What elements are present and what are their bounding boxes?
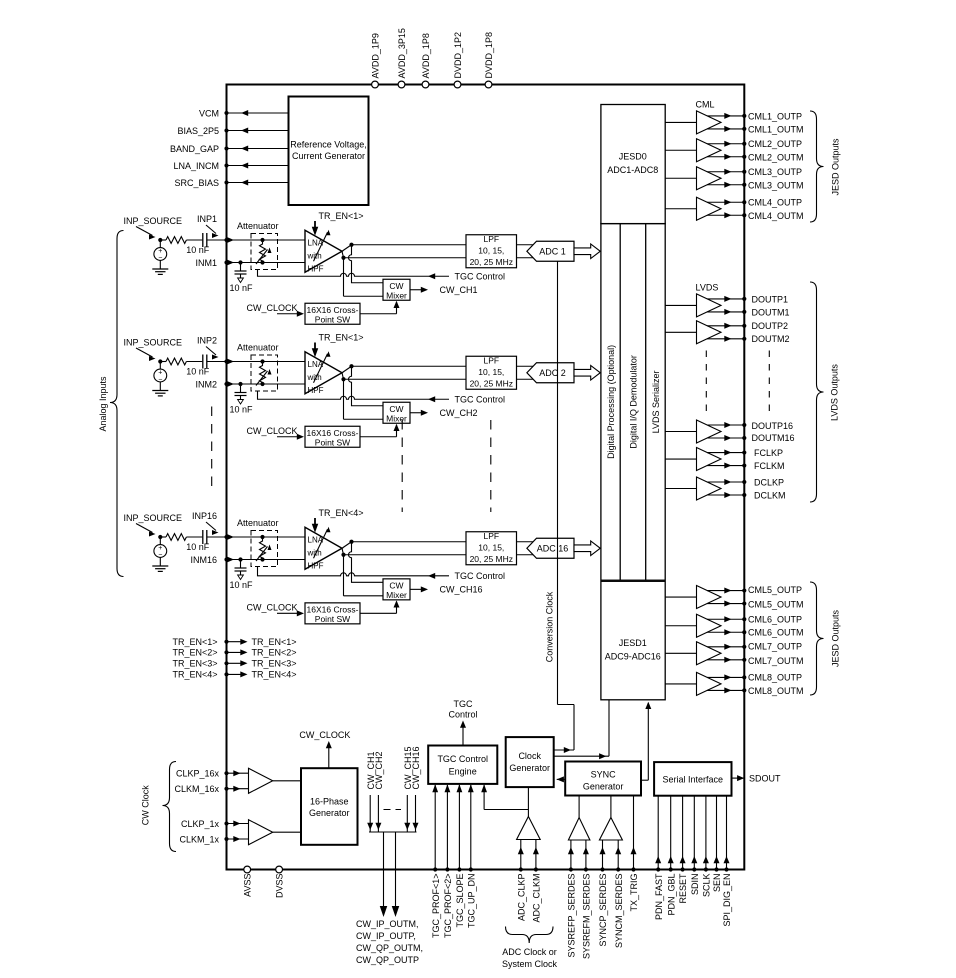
svg-text:16X16 Cross-: 16X16 Cross- bbox=[307, 605, 359, 615]
svg-text:AVDD_1P8: AVDD_1P8 bbox=[421, 33, 431, 78]
channel 2: CW mixer block bbox=[383, 402, 410, 423]
channel 1: LNA amplifier U1 bbox=[305, 230, 342, 272]
svg-text:SEN: SEN bbox=[712, 874, 722, 893]
channel 2: source resistor RS2 bbox=[160, 361, 166, 363]
svg-text:16-Phase: 16-Phase bbox=[310, 797, 349, 807]
svg-text:Digital Processing (Optional): Digital Processing (Optional) bbox=[606, 345, 616, 459]
channel 16: attenuator dashed box bbox=[251, 531, 278, 567]
svg-text:VCM: VCM bbox=[199, 108, 219, 118]
svg-text:ADC 16: ADC 16 bbox=[537, 543, 569, 553]
svg-text:CML8_OUTP: CML8_OUTP bbox=[748, 672, 802, 682]
serial interface input wire bbox=[657, 796, 659, 870]
channel 16: INM wire into chip bbox=[227, 559, 306, 561]
channel 16: CW mixer block bbox=[383, 579, 410, 600]
svg-text:10, 15,: 10, 15, bbox=[478, 367, 504, 377]
svg-text:HPF: HPF bbox=[308, 561, 324, 570]
JESD outputs brace (top) bbox=[810, 111, 824, 222]
channel 16: source node bbox=[158, 535, 162, 539]
channel 16: CW_CH16 output wire bbox=[410, 588, 425, 590]
svg-text:AVDD_1P9: AVDD_1P9 bbox=[371, 33, 381, 78]
LVDS output buffer (pair 2) bbox=[665, 331, 697, 333]
svg-text:CML4_OUTP: CML4_OUTP bbox=[748, 197, 802, 207]
svg-text:RESET: RESET bbox=[678, 873, 688, 904]
channel 2: attenuator dashed box bbox=[251, 355, 278, 391]
svg-text:INP2: INP2 bbox=[197, 336, 217, 346]
channel 16: cross-point to mixer wire bbox=[360, 612, 397, 614]
power pin AVDD_3P15 bbox=[398, 81, 405, 88]
svg-text:Digital I/Q Demodulator: Digital I/Q Demodulator bbox=[628, 355, 638, 449]
channel 16: series capacitor 10 nF bbox=[202, 530, 204, 544]
svg-text:TR_EN<2>: TR_EN<2> bbox=[252, 648, 297, 658]
svg-text:10 nF: 10 nF bbox=[230, 405, 254, 415]
JESD1 ADC9-ADC16 block bbox=[601, 581, 665, 700]
channel 1: tap wire to CW mixer (lower) bbox=[343, 258, 345, 297]
svg-text:TR_EN<1>: TR_EN<1> bbox=[319, 211, 364, 221]
LVDS output buffer (pair 2) bbox=[665, 488, 697, 490]
channel 1: attenuator dashed box bbox=[251, 234, 278, 270]
svg-text:Generator: Generator bbox=[509, 763, 550, 773]
svg-text:SYNC: SYNC bbox=[591, 770, 617, 780]
svg-text:Conversion Clock: Conversion Clock bbox=[545, 591, 555, 662]
svg-text:10 nF: 10 nF bbox=[230, 283, 254, 293]
channel 1: LPF to ADC wires bbox=[517, 244, 537, 246]
pin SRC_BIAS bbox=[227, 182, 289, 184]
clock to TGC engine wire bbox=[483, 785, 485, 810]
svg-text:DOUTP1: DOUTP1 bbox=[752, 294, 789, 304]
LVDS output buffer (pair 1) bbox=[665, 304, 697, 306]
svg-text:CML1_OUTM: CML1_OUTM bbox=[748, 124, 804, 134]
clock generator to conversion clock wire bbox=[554, 749, 574, 751]
CW channel collector wire bbox=[369, 831, 417, 833]
conversion clock wire bbox=[557, 261, 559, 704]
svg-text:TGC: TGC bbox=[454, 699, 473, 709]
clock generator block bbox=[506, 737, 554, 787]
svg-text:JESD1: JESD1 bbox=[619, 638, 647, 648]
svg-text:SYSREFP_SERDES: SYSREFP_SERDES bbox=[567, 874, 577, 958]
svg-text:TGC_SLOPE: TGC_SLOPE bbox=[455, 874, 465, 928]
svg-text:Generator: Generator bbox=[583, 782, 624, 792]
channel 16: LPF filter block bbox=[466, 532, 517, 565]
svg-text:Clock: Clock bbox=[518, 751, 541, 761]
channel 16: LNA amplifier U16 bbox=[305, 527, 342, 569]
channel 2: tap wire to CW mixer (upper) bbox=[349, 366, 384, 406]
channel 16: source ground bbox=[159, 557, 161, 566]
svg-text:Point SW: Point SW bbox=[315, 437, 350, 447]
channel 16: LNA gain arrow bbox=[314, 529, 328, 558]
SYNC to JESD1 wire bbox=[641, 779, 648, 781]
svg-text:ADC_CLKM: ADC_CLKM bbox=[532, 874, 542, 923]
channel 16: LPF to ADC wires bbox=[517, 541, 537, 543]
svg-text:CML4_OUTM: CML4_OUTM bbox=[748, 211, 804, 221]
svg-text:INP_SOURCE: INP_SOURCE bbox=[124, 513, 183, 523]
channel continuation dashed line (right) bbox=[490, 420, 492, 512]
svg-text:16X16 Cross-: 16X16 Cross- bbox=[307, 305, 359, 315]
svg-text:SYSREFM_SERDES: SYSREFM_SERDES bbox=[582, 874, 592, 960]
CW channel continuation dashes bbox=[384, 809, 402, 811]
svg-text:CW_CH16: CW_CH16 bbox=[440, 585, 483, 595]
channel 2: INM wire into chip bbox=[227, 383, 306, 385]
pin VCM bbox=[227, 112, 289, 114]
channel 1: tap wire to CW mixer (upper) bbox=[349, 245, 384, 283]
channel 2: shunt capacitor 10 nF bbox=[238, 382, 242, 386]
CW clock buffer (1x) bbox=[249, 820, 273, 845]
svg-text:CW_CLOCK: CW_CLOCK bbox=[247, 603, 298, 613]
svg-text:TX_TRIG: TX_TRIG bbox=[629, 874, 639, 912]
channel 16: signal source VS16 bbox=[159, 537, 161, 545]
LVDS continuation dashed line (left) bbox=[705, 351, 707, 415]
channel 1: digital bus arrow to processing bbox=[574, 244, 600, 259]
svg-text:TR_EN<2>: TR_EN<2> bbox=[172, 648, 217, 658]
channel 2: 16X16 cross-point switch block bbox=[305, 426, 360, 447]
svg-text:CML2_OUTP: CML2_OUTP bbox=[748, 139, 802, 149]
channel 1: shunt capacitor 10 nF bbox=[238, 260, 242, 264]
serial interface input wire bbox=[693, 796, 695, 870]
svg-text:FCLKM: FCLKM bbox=[754, 461, 785, 471]
svg-text:CLKP_1x: CLKP_1x bbox=[181, 819, 220, 829]
pin LNA_INCM bbox=[227, 165, 289, 167]
svg-text:CW_CLOCK: CW_CLOCK bbox=[247, 303, 298, 313]
svg-text:ADC9-ADC16: ADC9-ADC16 bbox=[605, 651, 661, 661]
CW_CLOCK output wire bbox=[328, 744, 330, 768]
svg-text:ADC 2: ADC 2 bbox=[539, 368, 566, 378]
svg-text:CML6_OUTP: CML6_OUTP bbox=[748, 615, 802, 625]
ground pin DVSS bbox=[276, 866, 283, 873]
svg-text:LPF: LPF bbox=[484, 531, 500, 541]
channel 2: digital bus arrow to processing bbox=[574, 365, 600, 380]
16-phase generator block bbox=[301, 768, 358, 845]
channel 16: INP wire into chip bbox=[227, 536, 306, 538]
svg-text:CW_CH1: CW_CH1 bbox=[440, 285, 478, 295]
svg-text:Mixer: Mixer bbox=[386, 413, 407, 423]
digital processing (optional) block bbox=[601, 224, 665, 581]
channel 1: TR_EN arrow into LNA bbox=[314, 221, 316, 232]
svg-text:TR_EN<3>: TR_EN<3> bbox=[252, 659, 297, 669]
svg-text:CML: CML bbox=[696, 100, 715, 110]
JESD outputs brace (bottom) bbox=[810, 582, 824, 695]
svg-text:CML3_OUTM: CML3_OUTM bbox=[748, 180, 804, 190]
svg-text:Mixer: Mixer bbox=[386, 290, 407, 300]
svg-text:INM1: INM1 bbox=[195, 258, 217, 268]
svg-text:10 nF: 10 nF bbox=[186, 245, 210, 255]
svg-text:System Clock: System Clock bbox=[502, 959, 558, 969]
svg-text:CML3_OUTP: CML3_OUTP bbox=[748, 167, 802, 177]
serial interface input wire bbox=[705, 796, 707, 870]
digital I/Q demodulator block bbox=[645, 224, 647, 581]
svg-text:PDN_GBL: PDN_GBL bbox=[666, 874, 676, 916]
svg-text:CW Clock: CW Clock bbox=[141, 785, 151, 825]
svg-text:INP_SOURCE: INP_SOURCE bbox=[124, 338, 183, 348]
channel 16: LNA differential output wires bbox=[342, 542, 352, 549]
svg-text:LPF: LPF bbox=[484, 234, 500, 244]
channel 16: tap wire to CW mixer (lower) bbox=[343, 555, 345, 596]
svg-text:JESD Outputs: JESD Outputs bbox=[831, 138, 841, 196]
svg-text:Point SW: Point SW bbox=[315, 614, 350, 624]
svg-text:SYNCM_SERDES: SYNCM_SERDES bbox=[614, 874, 624, 949]
channel 1: CW mixer block bbox=[383, 279, 410, 300]
LVDS output buffer (pair 1) bbox=[665, 431, 697, 433]
svg-text:CLKP_16x: CLKP_16x bbox=[176, 769, 220, 779]
svg-text:TGC Control: TGC Control bbox=[455, 395, 506, 405]
channel 1: source resistor RS1 bbox=[160, 239, 166, 241]
channel 2: INP wire into chip bbox=[227, 361, 306, 363]
svg-text:DOUTP2: DOUTP2 bbox=[752, 321, 789, 331]
CML(JESD1) output buffer (pair 4) bbox=[665, 683, 697, 685]
svg-text:DVDD_1P8: DVDD_1P8 bbox=[484, 32, 494, 79]
svg-text:10, 15,: 10, 15, bbox=[478, 245, 504, 255]
svg-text:CML5_OUTP: CML5_OUTP bbox=[748, 585, 802, 595]
svg-text:SDIN: SDIN bbox=[690, 874, 700, 896]
svg-text:CW_CH2: CW_CH2 bbox=[374, 751, 384, 789]
LVDS outputs brace bbox=[810, 282, 824, 502]
svg-text:CW_QP_OUTP: CW_QP_OUTP bbox=[356, 955, 419, 965]
CW_IP/QP output wire (left) bbox=[383, 832, 385, 905]
svg-text:TR_EN<4>: TR_EN<4> bbox=[252, 670, 297, 680]
analog inputs brace bbox=[110, 231, 124, 577]
power pin DVDD_1P8 bbox=[485, 81, 492, 88]
TX_TRIG input wire bbox=[633, 796, 635, 870]
pin BIAS_2P5 bbox=[227, 130, 289, 132]
svg-text:CML6_OUTM: CML6_OUTM bbox=[748, 628, 804, 638]
TGC control engine block bbox=[428, 746, 497, 784]
svg-text:DOUTP16: DOUTP16 bbox=[752, 421, 794, 431]
svg-text:Attenuator: Attenuator bbox=[237, 221, 279, 231]
svg-text:Serial Interface: Serial Interface bbox=[663, 774, 724, 784]
channel 1: LNA differential output wires bbox=[342, 245, 352, 252]
svg-text:Engine: Engine bbox=[449, 766, 477, 776]
channel 2: LNA differential output wires bbox=[342, 366, 352, 373]
svg-text:CML7_OUTM: CML7_OUTM bbox=[748, 656, 804, 666]
svg-text:DVSS: DVSS bbox=[275, 874, 285, 899]
svg-text:DCLKM: DCLKM bbox=[754, 490, 786, 500]
svg-text:HPF: HPF bbox=[308, 264, 324, 273]
svg-text:TR_EN<3>: TR_EN<3> bbox=[172, 659, 217, 669]
svg-text:HPF: HPF bbox=[308, 386, 324, 395]
svg-text:CW_IP_OUTM,: CW_IP_OUTM, bbox=[356, 919, 419, 929]
SERDES input wire bbox=[570, 840, 572, 870]
svg-text:Point SW: Point SW bbox=[315, 314, 350, 324]
pin SDOUT bbox=[732, 777, 745, 779]
channel 2: source ground bbox=[159, 382, 161, 391]
svg-text:TGC Control: TGC Control bbox=[455, 272, 506, 282]
channel continuation dashed line (mid) bbox=[401, 420, 403, 512]
channel 2: TR_EN arrow into LNA bbox=[314, 343, 316, 354]
channel 2: TGC control wire bbox=[258, 391, 450, 399]
serial interface block bbox=[654, 762, 731, 796]
channel 2: ADC 2 block bbox=[527, 363, 574, 383]
svg-text:SCLK: SCLK bbox=[702, 874, 712, 898]
svg-text:Current Generator: Current Generator bbox=[292, 151, 365, 161]
channel 1: attenuator potentiometer bbox=[260, 238, 264, 242]
channel 16: pointer arrow from INP_SOURCE bbox=[136, 524, 153, 533]
channel 2: signal source VS2 bbox=[159, 362, 161, 370]
svg-text:CML8_OUTM: CML8_OUTM bbox=[748, 686, 804, 696]
svg-text:TR_EN<1>: TR_EN<1> bbox=[319, 333, 364, 343]
svg-text:INP1: INP1 bbox=[197, 214, 217, 224]
svg-text:Generator: Generator bbox=[309, 808, 350, 818]
svg-text:10 nF: 10 nF bbox=[230, 580, 254, 590]
svg-text:LVDS Outputs: LVDS Outputs bbox=[830, 364, 840, 421]
TGC Control output wire bbox=[462, 723, 464, 746]
svg-text:LVDS: LVDS bbox=[696, 283, 719, 293]
CML(JESD1) output buffer (pair 3) bbox=[665, 652, 697, 654]
channel 1: source node bbox=[158, 238, 162, 242]
svg-text:CML7_OUTP: CML7_OUTP bbox=[748, 641, 802, 651]
ADC clock input wire bbox=[535, 840, 537, 870]
svg-text:AVSS: AVSS bbox=[243, 874, 253, 897]
svg-text:JESD Outputs: JESD Outputs bbox=[831, 609, 841, 667]
svg-text:DVDD_1P2: DVDD_1P2 bbox=[453, 32, 463, 79]
svg-text:CW_CLOCK: CW_CLOCK bbox=[247, 426, 298, 436]
svg-text:FCLKP: FCLKP bbox=[754, 448, 783, 458]
channel 2: LNA amplifier U2 bbox=[305, 352, 342, 394]
svg-text:LVDS Serializer: LVDS Serializer bbox=[651, 370, 661, 433]
svg-text:10, 15,: 10, 15, bbox=[478, 542, 504, 552]
power pin AVDD_1P8 bbox=[422, 81, 429, 88]
svg-text:INP16: INP16 bbox=[192, 511, 217, 521]
svg-text:CW: CW bbox=[389, 404, 403, 414]
channel 1: 16X16 cross-point switch block bbox=[305, 303, 360, 324]
svg-text:SDOUT: SDOUT bbox=[749, 774, 781, 784]
svg-text:CML2_OUTM: CML2_OUTM bbox=[748, 152, 804, 162]
svg-text:TGC Control: TGC Control bbox=[455, 571, 506, 581]
CML(JESD1) output buffer (pair 1) bbox=[665, 596, 697, 598]
svg-text:Attenuator: Attenuator bbox=[237, 518, 279, 528]
svg-text:LNA_INCM: LNA_INCM bbox=[173, 161, 219, 171]
LVDS output buffer (pair 1) bbox=[665, 458, 697, 460]
SERDES input wire bbox=[602, 840, 604, 870]
svg-text:Reference Voltage,: Reference Voltage, bbox=[290, 140, 367, 150]
svg-text:ADC_CLKP: ADC_CLKP bbox=[516, 874, 526, 922]
channel 2: series capacitor 10 nF bbox=[202, 355, 204, 369]
SYNC to clock generator wire bbox=[557, 778, 566, 780]
svg-text:CW_CH2: CW_CH2 bbox=[440, 408, 478, 418]
SYNC generator block bbox=[565, 762, 641, 796]
SYSREF input buffer bbox=[568, 818, 590, 841]
svg-text:ADC 1: ADC 1 bbox=[539, 246, 566, 256]
channel 16: TR_EN arrow into LNA bbox=[314, 518, 316, 529]
svg-text:CLKM_16x: CLKM_16x bbox=[174, 784, 219, 794]
svg-text:Mixer: Mixer bbox=[386, 590, 407, 600]
TGC engine input wire bbox=[446, 785, 448, 870]
CML(JESD0) output buffer (pair 2) bbox=[665, 149, 697, 151]
svg-text:CW_QP_OUTM,: CW_QP_OUTM, bbox=[356, 943, 423, 953]
serial interface input wire bbox=[716, 796, 718, 870]
CW clock buffer (16x) bbox=[249, 768, 273, 793]
svg-text:AVDD_3P15: AVDD_3P15 bbox=[397, 28, 407, 78]
clock generator bottom wire bbox=[527, 787, 529, 816]
clock generator to JESD1 wire bbox=[554, 755, 609, 757]
svg-text:JESD0: JESD0 bbox=[619, 152, 647, 162]
svg-text:10 nF: 10 nF bbox=[186, 542, 210, 552]
svg-text:CW_IP_OUTP,: CW_IP_OUTP, bbox=[356, 931, 416, 941]
channel 1: series capacitor 10 nF bbox=[202, 233, 204, 247]
serial interface input wire bbox=[726, 796, 728, 870]
channel 16: tap wire to CW mixer (upper) bbox=[349, 542, 384, 583]
channel 16: ADC 16 block bbox=[527, 538, 574, 558]
svg-text:20, 25 MHz: 20, 25 MHz bbox=[470, 257, 513, 267]
channel 1: INM wire into chip bbox=[227, 262, 306, 264]
channel 1: pointer arrow from INP_SOURCE bbox=[136, 227, 153, 236]
channel 16: 16X16 cross-point switch block bbox=[305, 603, 360, 624]
svg-text:TR_EN<4>: TR_EN<4> bbox=[319, 508, 364, 518]
svg-text:DOUTM1: DOUTM1 bbox=[752, 307, 790, 317]
channel 1: LNA gain arrow bbox=[314, 232, 328, 261]
svg-text:TGC Control: TGC Control bbox=[437, 754, 488, 764]
channel 16: attenuator potentiometer bbox=[260, 535, 264, 539]
svg-text:Attenuator: Attenuator bbox=[237, 343, 279, 353]
CML(JESD0) output buffer (pair 4) bbox=[665, 208, 697, 210]
CW clock brace bbox=[163, 762, 177, 852]
channel continuation dashed line (inputs) bbox=[211, 407, 213, 495]
channel 1: LPF filter block bbox=[466, 235, 517, 268]
svg-text:CW: CW bbox=[389, 281, 403, 291]
channel 2: attenuator potentiometer bbox=[260, 359, 264, 363]
svg-text:Analog Inputs: Analog Inputs bbox=[98, 376, 108, 432]
channel 2: LPF to ADC wires bbox=[517, 365, 537, 367]
svg-text:TR_EN<1>: TR_EN<1> bbox=[172, 637, 217, 647]
power pin AVDD_1P9 bbox=[372, 81, 379, 88]
channel 16: digital bus arrow to processing bbox=[574, 541, 600, 556]
svg-text:TR_EN<4>: TR_EN<4> bbox=[172, 670, 217, 680]
svg-text:TGC_UP_DN: TGC_UP_DN bbox=[466, 874, 476, 929]
svg-text:CLKM_1x: CLKM_1x bbox=[179, 834, 219, 844]
TGC engine input wire bbox=[458, 785, 460, 870]
svg-text:DOUTM16: DOUTM16 bbox=[752, 433, 795, 443]
svg-text:TR_EN<1>: TR_EN<1> bbox=[252, 637, 297, 647]
svg-text:TGC_PROF<1>: TGC_PROF<1> bbox=[431, 874, 441, 939]
channel 2: LNA gain arrow bbox=[314, 354, 328, 383]
channel 1: INP wire into chip bbox=[227, 239, 306, 241]
ADC clock brace bbox=[506, 927, 554, 944]
channel 16: shunt capacitor 10 nF bbox=[238, 557, 242, 561]
pin BAND_GAP bbox=[227, 148, 289, 150]
serial interface input wire bbox=[682, 796, 684, 870]
channel 1: source ground bbox=[159, 260, 161, 269]
svg-text:DCLKP: DCLKP bbox=[754, 477, 784, 487]
svg-text:BIAS_2P5: BIAS_2P5 bbox=[177, 126, 219, 136]
channel 1: cross-point to mixer wire bbox=[360, 313, 397, 315]
TGC engine input wire bbox=[470, 785, 472, 870]
channel 1: TGC control wire bbox=[258, 269, 450, 276]
svg-text:SRC_BIAS: SRC_BIAS bbox=[174, 178, 219, 188]
svg-text:INP_SOURCE: INP_SOURCE bbox=[124, 216, 183, 226]
svg-text:ADC Clock or: ADC Clock or bbox=[502, 947, 557, 957]
CML(JESD0) output buffer (pair 3) bbox=[665, 177, 697, 179]
svg-text:DOUTM2: DOUTM2 bbox=[752, 334, 790, 344]
channel 2: CW_CH2 output wire bbox=[410, 412, 425, 414]
SYNCP/M input buffer bbox=[599, 818, 622, 841]
svg-text:CW_CLOCK: CW_CLOCK bbox=[299, 730, 350, 740]
channel 16: source resistor RS16 bbox=[160, 536, 166, 538]
chip boundary box bbox=[227, 85, 745, 870]
svg-text:INM16: INM16 bbox=[190, 555, 217, 565]
svg-text:SPI_DIG_EN: SPI_DIG_EN bbox=[722, 874, 732, 927]
SERDES input wire bbox=[585, 840, 587, 870]
channel 1: signal source VS1 bbox=[159, 240, 161, 248]
svg-text:CW: CW bbox=[389, 580, 403, 590]
channel 16: TGC control wire bbox=[258, 566, 450, 575]
svg-text:ADC1-ADC8: ADC1-ADC8 bbox=[607, 165, 658, 175]
CML(JESD1) output buffer (pair 2) bbox=[665, 625, 697, 627]
svg-text:TGC_PROF<2>: TGC_PROF<2> bbox=[443, 874, 453, 939]
channel 2: tap wire to CW mixer (lower) bbox=[343, 379, 345, 419]
svg-text:CML1_OUTP: CML1_OUTP bbox=[748, 111, 802, 121]
svg-text:CW_CH16: CW_CH16 bbox=[411, 746, 421, 789]
power pin DVDD_1P2 bbox=[454, 81, 461, 88]
channel 1: CW_CH1 output wire bbox=[410, 289, 425, 291]
svg-text:SYNCP_SERDES: SYNCP_SERDES bbox=[598, 874, 608, 947]
svg-text:10 nF: 10 nF bbox=[186, 367, 210, 377]
